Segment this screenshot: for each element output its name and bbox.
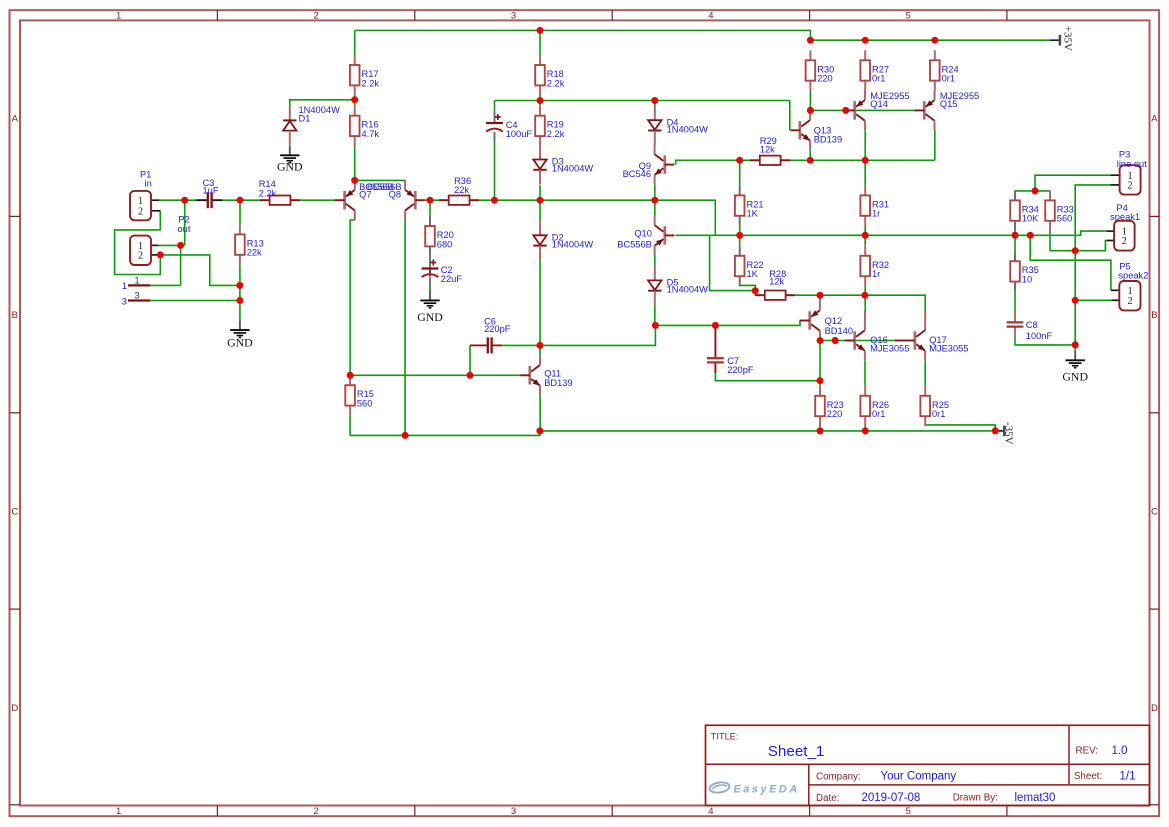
svg-text:GND: GND	[277, 160, 303, 174]
svg-text:EasyEDA: EasyEDA	[734, 783, 800, 795]
junction at 184.7,200.2	[181, 197, 188, 204]
svg-text:Date:: Date:	[816, 793, 839, 804]
wire Q9 base jog	[676, 160, 740, 164]
svg-text:MJE3055: MJE3055	[929, 343, 968, 353]
junction at 540,100.5	[537, 97, 544, 104]
svg-text:D: D	[1151, 703, 1158, 714]
junction at 354.7,99.8	[351, 96, 358, 103]
resistor R27	[860, 50, 889, 90]
svg-text:Company:: Company:	[816, 771, 861, 782]
junction at 865.2,160.3	[862, 157, 869, 164]
ruler column numbers	[116, 11, 911, 818]
wire P5 pin2	[1075, 299, 1111, 301]
wire R19 top	[539, 101, 541, 106]
transistor Q15	[915, 91, 979, 131]
svg-text:2: 2	[313, 806, 318, 817]
svg-text:2.2k: 2.2k	[362, 78, 380, 88]
junction at 995.3,430.9	[992, 427, 999, 434]
wire mid row to bias rail	[655, 200, 716, 235]
wire C7 node to R23	[819, 381, 821, 386]
svg-text:1.0: 1.0	[1112, 745, 1128, 757]
ruler band corner joints	[10, 804, 21, 806]
wire upper rail C4 to Q13 base	[495, 100, 790, 102]
svg-text:C: C	[11, 506, 18, 517]
svg-text:out: out	[178, 224, 191, 234]
resistor R21	[735, 185, 764, 225]
capacitor C3	[197, 178, 222, 208]
wire speak- column down	[1074, 251, 1076, 351]
junction at 654.8,200.2	[651, 197, 658, 204]
junction at 1075.2,250.7	[1072, 247, 1079, 254]
wire C4 top	[494, 101, 496, 111]
svg-text:220: 220	[817, 74, 833, 84]
svg-text:3: 3	[511, 806, 516, 817]
svg-text:22k: 22k	[454, 185, 469, 195]
svg-text:2019-07-08: 2019-07-08	[862, 792, 921, 804]
transistor Q14	[845, 91, 909, 131]
svg-text:+35V: +35V	[1062, 26, 1074, 51]
wire P3 pin2 to speak- column	[1075, 185, 1110, 251]
svg-text:220pF: 220pF	[727, 365, 754, 375]
junction at 715.4,325.4	[712, 322, 719, 329]
capacitor C8	[1007, 312, 1053, 341]
svg-text:GND: GND	[227, 335, 253, 349]
svg-text:1K: 1K	[747, 209, 759, 219]
svg-text:Your Company: Your Company	[881, 771, 957, 783]
resistor R28	[755, 269, 795, 300]
wire R27 bottom	[864, 90, 866, 96]
pin C7 top extension	[714, 325, 716, 348]
junction at 810.2,160.3	[807, 157, 814, 164]
wire R30 bottom	[809, 90, 811, 110]
svg-text:BC556B: BC556B	[617, 239, 652, 249]
junction at 540,345.4	[537, 342, 544, 349]
wire top +35V rail	[355, 30, 1050, 40]
junction at 180.6,245.4	[177, 242, 184, 249]
pin stub P4 pin2	[1107, 240, 1115, 242]
wire Q8 base node	[425, 199, 439, 201]
connector P2	[130, 236, 151, 265]
wire Q16 emitter	[864, 360, 866, 385]
resistor R30	[806, 50, 835, 90]
title block frame	[706, 725, 1150, 805]
wire Q8 collector down	[404, 220, 406, 435]
svg-text:C: C	[1151, 506, 1158, 517]
pin C6 left extension	[470, 344, 478, 346]
wire R35 bottom to C8	[1014, 292, 1016, 313]
wire P1 pin1 to C3	[159, 199, 196, 201]
wire R35 top	[1014, 235, 1016, 251]
svg-text:REV:: REV:	[1076, 746, 1099, 757]
pin stub P1 pin2	[151, 210, 160, 212]
wire R24 bottom	[934, 90, 936, 96]
transistor Q7	[335, 180, 394, 220]
wire R18 to rail	[539, 93, 541, 100]
svg-text:TITLE:: TITLE:	[711, 731, 739, 741]
wire R13 bottom ground column	[239, 265, 241, 320]
svg-text:C8: C8	[1026, 320, 1038, 330]
junction at 470,375.3	[467, 372, 474, 379]
junction at 865.2,430.9	[862, 427, 869, 434]
wire P2 pin2 to ground column	[160, 255, 240, 286]
wire P2 pin2 loop	[115, 211, 161, 275]
svg-text:220: 220	[827, 409, 843, 419]
wire C6 right to node	[503, 344, 541, 346]
wire Q10 top to mid row	[654, 200, 656, 215]
wire Q11 emitter	[539, 395, 541, 431]
svg-text:1N4004W: 1N4004W	[667, 124, 709, 134]
pin stub P5 pin1	[1111, 289, 1119, 291]
junction at 845.7,110.4	[842, 107, 849, 114]
EasyEDA logo	[709, 781, 800, 795]
wire D2 top	[539, 200, 541, 220]
resistor R16	[350, 106, 380, 146]
wire R18 top	[539, 30, 541, 55]
svg-text:2.2k: 2.2k	[547, 129, 565, 139]
resistor R15	[345, 375, 374, 415]
wire P3 pin1 run	[1035, 175, 1111, 191]
pin stub P3 pin2	[1111, 184, 1120, 186]
resistor R26	[860, 386, 889, 426]
connector P4	[1114, 221, 1135, 251]
pin stub P2 pin1	[151, 244, 158, 246]
wire D1 to R17/R16 node	[290, 100, 355, 107]
wire Q13 base drop	[789, 101, 791, 131]
wire R17 top	[354, 30, 356, 55]
junction at 1030.2,235.3	[1027, 232, 1034, 239]
junction at 160.3,254.9	[157, 251, 164, 258]
ruler row letters	[11, 114, 1158, 714]
svg-text:680: 680	[437, 239, 453, 249]
svg-text:lemat30: lemat30	[1015, 792, 1056, 804]
svg-text:100nF: 100nF	[1026, 331, 1053, 341]
junction at 239.9,285.4	[236, 282, 243, 289]
resistor R36	[439, 176, 479, 205]
wire R23 bottom	[819, 426, 821, 431]
wire D5 bottom	[654, 305, 656, 325]
wire port 3 to ground column	[150, 300, 240, 302]
svg-text:1uF: 1uF	[203, 186, 219, 196]
wire R29 left	[740, 159, 750, 161]
svg-text:1: 1	[138, 196, 143, 207]
junction at 654.8,100.5	[651, 97, 658, 104]
wire R29 right to Q13 emitter	[790, 159, 810, 161]
wire Q9 emitter to mid row	[654, 184, 656, 200]
ground	[227, 320, 253, 349]
gray pin C4 bottom	[494, 132, 496, 141]
svg-text:P2: P2	[178, 214, 189, 224]
connector P3	[1120, 165, 1141, 194]
junction at 350.1,375.3	[347, 372, 354, 379]
resistor R13	[235, 224, 264, 264]
junction at 354.7,180.4	[351, 177, 358, 184]
wire C7 bottom run	[715, 373, 820, 381]
wire R22 top	[739, 235, 741, 246]
wire R32 bottom	[864, 286, 866, 295]
svg-text:12k: 12k	[769, 276, 784, 286]
ground	[417, 291, 443, 324]
wire C3 to R14/R13 node	[221, 199, 265, 201]
svg-text:1N4004W: 1N4004W	[552, 164, 594, 174]
wire main mid row	[495, 199, 655, 201]
svg-text:1r: 1r	[872, 269, 880, 279]
pin stub P4 pin1	[1107, 230, 1115, 232]
wire R34 top	[1014, 191, 1016, 201]
resistor R17	[350, 55, 380, 95]
svg-text:Q14: Q14	[870, 99, 888, 109]
wire R17 to R16	[354, 93, 356, 105]
resistor R29	[750, 136, 790, 165]
svg-text:Q8: Q8	[389, 190, 401, 200]
svg-text:12k: 12k	[760, 145, 775, 155]
pin stub P2 pin2	[151, 254, 158, 256]
wire bias rail drop to R28	[710, 235, 756, 290]
junction at 540,30.4	[537, 27, 544, 34]
svg-text:220pF: 220pF	[484, 324, 511, 334]
svg-text:B: B	[1151, 310, 1157, 321]
svg-text:1: 1	[116, 11, 121, 22]
svg-text:0r1: 0r1	[872, 409, 885, 419]
wire node A vertical P1-P2	[184, 200, 186, 245]
pin Q16 collector extension	[864, 311, 866, 321]
wire C2 to ground	[429, 286, 431, 291]
wire R26 bottom	[864, 426, 866, 431]
junction at 1035,190.9	[1032, 187, 1039, 194]
ground	[277, 146, 303, 174]
port 3 net flag	[128, 299, 150, 301]
svg-text:Sheet_1: Sheet_1	[768, 743, 825, 760]
junction at 1015,235.3	[1012, 232, 1019, 239]
wire Q12 base row	[655, 321, 800, 326]
svg-text:1N4004W: 1N4004W	[552, 240, 594, 250]
diode D2	[533, 220, 593, 260]
junction at 755.2,290.7	[752, 287, 759, 294]
svg-text:2: 2	[138, 251, 143, 262]
gray pin C2 bottom	[429, 277, 431, 286]
svg-text:2: 2	[313, 11, 318, 22]
svg-text:Q15: Q15	[940, 99, 958, 109]
junction at 655.4,325.4	[652, 322, 659, 329]
wire D3 to mid row	[539, 185, 541, 200]
svg-text:10: 10	[1022, 275, 1032, 285]
svg-text:Q12: Q12	[825, 316, 843, 326]
junction at 820,430.9	[817, 427, 824, 434]
wire R31 top	[864, 160, 866, 185]
transistor Q9	[623, 145, 675, 185]
capacitor C7	[707, 348, 754, 375]
resistor R23	[815, 386, 844, 426]
wire Q7 collector down	[350, 220, 355, 375]
svg-text:Sheet:: Sheet:	[1074, 771, 1102, 782]
junction at 739.7,160.3	[736, 157, 743, 164]
svg-text:0r1: 0r1	[942, 74, 955, 84]
title block texts	[711, 731, 1136, 804]
pin stub P3 pin1	[1111, 174, 1120, 176]
gray pin C4 top	[494, 111, 496, 123]
svg-text:A: A	[12, 114, 19, 125]
svg-text:560: 560	[357, 399, 373, 409]
pin Q17 collector extension	[924, 311, 926, 321]
wire Q12 collector down to C7 node	[819, 341, 821, 381]
svg-text:2: 2	[1128, 181, 1133, 192]
junction at 810.4,110.4	[807, 107, 814, 114]
wire C4 bottom	[494, 141, 496, 201]
junction at 820,295.2	[817, 292, 824, 299]
svg-text:1r: 1r	[872, 209, 880, 219]
svg-text:-35V: -35V	[1003, 422, 1015, 445]
resistor R24	[930, 50, 959, 90]
junction at 865.2,40.2	[862, 37, 869, 44]
ground	[1062, 351, 1088, 384]
wire R32 node to Q16 collector	[864, 295, 866, 311]
svg-text:D1: D1	[299, 113, 311, 123]
wire negative rail right	[540, 430, 995, 432]
pin stub P1 pin1	[151, 199, 159, 201]
svg-text:4: 4	[708, 806, 713, 817]
junction at 239.9,300.5	[236, 297, 243, 304]
pin stub C3 left	[196, 199, 208, 201]
wire R32 node to Q17 collector	[865, 295, 925, 311]
wire Q17 emitter	[924, 360, 926, 385]
transistor Q11	[520, 356, 572, 396]
wire R31 bottom	[864, 226, 866, 236]
resistor R18	[535, 55, 565, 95]
capacitor C4	[486, 114, 532, 139]
wire R25 bottom jog	[925, 425, 995, 431]
svg-text:1: 1	[122, 281, 127, 291]
wire Q16 base pin overlay	[846, 340, 855, 342]
junction at 240,200.2	[237, 197, 244, 204]
resistor R22	[735, 246, 764, 286]
gray pin R20-C2 link	[429, 246, 431, 268]
wire output rail	[675, 231, 1106, 235]
wire R33 bottom drop	[1049, 231, 1051, 251]
svg-text:3: 3	[511, 11, 516, 22]
resistor R19	[535, 106, 565, 146]
wire R16 to emitter rail	[354, 146, 356, 180]
wire Q12 collector node to bases	[820, 340, 895, 342]
wire R22 bottom to R28	[740, 285, 756, 295]
wire Q11 collector	[539, 345, 541, 355]
svg-text:5: 5	[906, 806, 911, 817]
wire D5 node to C6 node	[540, 325, 655, 345]
wire Q11 base row	[350, 374, 520, 376]
wire R21 bottom	[739, 226, 741, 236]
resistor R33	[1045, 190, 1074, 230]
wire R15 bottom	[349, 416, 351, 436]
svg-text:GND: GND	[1062, 370, 1088, 384]
wire R32 top	[864, 235, 866, 246]
transistor Q17	[905, 321, 968, 361]
wire C6 left drop	[469, 345, 471, 375]
junction at 810.4,40.2	[807, 37, 814, 44]
svg-text:speak2: speak2	[1118, 271, 1148, 281]
wire negative rail left	[350, 431, 540, 436]
svg-text:Q10: Q10	[634, 229, 652, 239]
wire R13 top	[239, 200, 241, 224]
wire Q13 collector to node	[809, 110, 811, 120]
svg-text:BC546: BC546	[623, 169, 651, 179]
resistor R25	[920, 386, 949, 426]
pin stub P5 pin2	[1112, 299, 1120, 301]
wire D2 bottom to C6 node	[539, 260, 541, 346]
svg-text:line out: line out	[1117, 159, 1147, 169]
wire Q13 emitter rail to Q14 Q15 collectors	[810, 159, 935, 161]
svg-text:100uF: 100uF	[506, 129, 533, 139]
wire Q15 collector down	[934, 130, 936, 160]
connector P1	[130, 191, 151, 220]
wire R36 to C4 node	[479, 199, 494, 201]
svg-text:in: in	[145, 178, 152, 188]
wire Q12 emitter top	[819, 295, 821, 301]
wire R15 top	[349, 375, 351, 385]
power +35V	[1050, 26, 1074, 51]
capacitor C6	[477, 317, 511, 354]
resistor R20	[425, 216, 454, 256]
svg-text:1K: 1K	[747, 269, 759, 279]
svg-text:5: 5	[906, 11, 911, 22]
junction at 540,200.2	[537, 197, 544, 204]
svg-text:1/1: 1/1	[1120, 770, 1136, 782]
pin C2 plate link	[429, 269, 431, 277]
junction at 1075.2,344.9	[1072, 341, 1079, 348]
svg-text:22uF: 22uF	[441, 274, 463, 284]
svg-text:3: 3	[135, 291, 140, 301]
wire Q14 collector down	[864, 130, 866, 160]
junction at 820,340.5	[817, 337, 824, 344]
resistor R14	[259, 179, 301, 205]
svg-text:B: B	[12, 310, 18, 321]
resistor R32	[860, 246, 889, 286]
svg-text:2.2k: 2.2k	[259, 188, 277, 198]
wire R28 right to Q12 emitter node	[796, 294, 820, 296]
wire port 1 to node B	[150, 284, 181, 286]
wire Q10 emitter to D5	[654, 255, 656, 265]
junction at 934.8,40.2	[931, 37, 938, 44]
junction at 739.7,235.3	[736, 232, 743, 239]
transistor Q8	[389, 180, 425, 220]
wire Q13 emitter down	[809, 150, 811, 160]
svg-text:D: D	[11, 703, 18, 714]
svg-text:1: 1	[116, 806, 121, 817]
connector P5	[1119, 281, 1140, 310]
wire Q14 Q15 base rail	[810, 109, 915, 111]
junction at 405.1,435.4	[402, 432, 409, 439]
svg-text:3: 3	[122, 296, 127, 306]
resistor R35	[1010, 251, 1039, 291]
svg-text:Drawn By:: Drawn By:	[953, 793, 998, 804]
transistor Q12	[800, 301, 853, 341]
wire speak+ drop to P5	[1030, 235, 1111, 290]
resistor R34	[1010, 190, 1039, 230]
transistor Q10	[617, 216, 674, 256]
pin stub C3 right	[212, 199, 221, 201]
power -35V	[995, 422, 1014, 445]
svg-text:10K: 10K	[1022, 214, 1039, 224]
wire C8 bottom to gnd node	[1015, 337, 1075, 345]
wire Q7 Q8 emitter rail	[355, 179, 405, 181]
diode D3	[533, 145, 593, 185]
wire R14 to Q7 base	[300, 199, 335, 201]
svg-text:22k: 22k	[247, 248, 262, 258]
svg-text:2: 2	[1127, 296, 1132, 307]
svg-text:1: 1	[135, 276, 140, 286]
junction at 1075.2,300.3	[1072, 297, 1079, 304]
wire R34 bottom	[1014, 231, 1016, 236]
wire speak- row to P4 pin2	[1050, 241, 1107, 251]
svg-text:2: 2	[1122, 236, 1127, 247]
svg-text:BD139: BD139	[814, 135, 842, 145]
